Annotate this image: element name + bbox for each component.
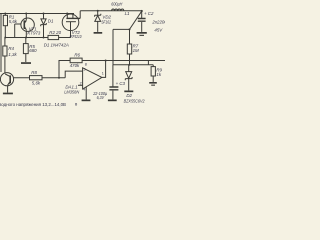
svg-text:1M: 1M (133, 48, 139, 53)
svg-text:2x2200: 2x2200 (151, 19, 165, 24)
ground under VT3 (3, 93, 13, 95)
wire VT3 base to R8 (13, 77, 29, 79)
node junction D1 anode (43, 37, 45, 39)
node junction on rail at R1 (4, 13, 6, 15)
ground under VD2 (94, 32, 103, 34)
wire sense node horizontal (113, 64, 154, 66)
wire top supply rail (0, 13, 74, 15)
pin 4 wire (85, 87, 87, 100)
node junction on rail at D1 (43, 13, 45, 15)
node junction on rail at VT1 emitter (25, 13, 27, 15)
ground under pin 4 (82, 100, 91, 102)
resistor R4 (3, 38, 7, 57)
ground under C3 (108, 100, 117, 102)
ground under R5 (21, 62, 31, 64)
svg-text:1k: 1k (156, 72, 161, 77)
node junction at VD2 (97, 10, 99, 12)
resistor R7 (127, 29, 131, 64)
transistor VT1 (15, 14, 35, 38)
svg-text:D1 1N4742A: D1 1N4742A (44, 42, 69, 47)
wire op-amp output (102, 61, 106, 78)
node junction at C2 (141, 10, 143, 12)
svg-text:R6: R6 (74, 53, 80, 58)
svg-text:8: 8 (85, 62, 87, 66)
svg-text:2: 2 (80, 82, 82, 86)
svg-text:1: 1 (102, 72, 104, 76)
ground under R9 (149, 82, 157, 86)
svg-text:4: 4 (83, 87, 85, 91)
wire output rail from VT2 drain (80, 10, 142, 12)
node junction at R7 bottom (128, 64, 130, 66)
transistor VT2 (62, 11, 80, 31)
ground under C2 (137, 32, 147, 36)
pin 2 stub (78, 84, 83, 86)
svg-text:D1: D1 (48, 19, 54, 24)
svg-text:5,6k: 5,6k (9, 19, 18, 24)
node junction diagonal/R7 (129, 28, 131, 30)
wire left input line (0, 14, 2, 73)
background (0, 0, 165, 110)
svg-text:SF162: SF162 (101, 19, 111, 24)
wire riser to pin 3 (65, 71, 82, 78)
svg-text:R2 20: R2 20 (49, 30, 61, 35)
svg-text:D2: D2 (126, 93, 132, 98)
svg-text:IRF5210: IRF5210 (70, 34, 82, 39)
svg-text:45V: 45V (154, 28, 163, 33)
wire VT2 gate riser (70, 30, 72, 37)
resistor R9 (151, 65, 155, 82)
wire diagonal from C2 node to sense branch (130, 11, 142, 29)
wire sense left vertical (112, 29, 114, 64)
svg-text:+ C3: + C3 (116, 81, 126, 86)
resistor R5 (23, 38, 28, 63)
svg-text:L1: L1 (125, 11, 130, 16)
resistor R2 (48, 35, 71, 39)
capacitor C3 (109, 65, 118, 100)
wire base node horizontal (5, 37, 48, 39)
resistor R8 (30, 76, 66, 80)
wire output to R9 jog (147, 61, 149, 65)
resistor R6 (59, 58, 82, 78)
svg-text:600µH: 600µH (111, 2, 123, 7)
svg-text:KT973: KT973 (27, 31, 40, 36)
svg-text:3: 3 (83, 68, 85, 72)
ground under D2 (124, 91, 133, 93)
diode D1 zener (41, 14, 47, 38)
svg-text:водного напряжения 13,2...14,: водного напряжения 13,2...14,0В (0, 102, 66, 107)
wire sense upper horizontal (113, 28, 130, 30)
svg-text:6,3V: 6,3V (97, 95, 105, 100)
node junction R1/R4 (4, 37, 6, 39)
svg-text:5,6k: 5,6k (32, 80, 41, 85)
resistor R1 (3, 14, 7, 38)
svg-text:R8: R8 (31, 70, 37, 75)
svg-text:680: 680 (29, 48, 37, 53)
diode VD2 (95, 11, 101, 32)
svg-text:470k: 470k (70, 63, 80, 68)
svg-text:BZX55C6V2: BZX55C6V2 (124, 99, 145, 104)
svg-text:LM358N: LM358N (64, 90, 80, 95)
svg-text:R4: R4 (8, 46, 14, 51)
diode D2 zener (125, 65, 132, 91)
capacitor C2 (138, 11, 146, 32)
node junction R6 tap (58, 77, 60, 79)
node junction output/R6 (105, 60, 107, 62)
wire VT1 base link (14, 24, 16, 38)
node junction on rail at VT2 source (66, 13, 68, 15)
wire op-amp output line (82, 60, 165, 62)
node junction VT1 collector (25, 37, 27, 39)
inductor L1 (112, 9, 124, 11)
svg-text:1,3k: 1,3k (8, 52, 17, 57)
svg-text:+ C2: + C2 (144, 11, 154, 16)
op-amp DA1.1 (83, 68, 102, 89)
transistor VT3 (0, 56, 13, 93)
